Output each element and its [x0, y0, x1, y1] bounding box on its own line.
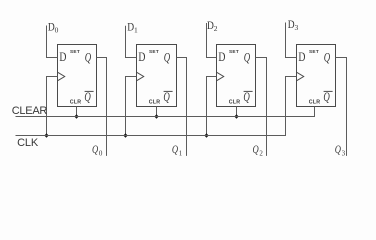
svg-text:Q: Q — [172, 144, 179, 156]
junction on CLK — [44, 133, 48, 137]
node D2 — [207, 20, 218, 33]
svg-text:Q: Q — [335, 144, 342, 156]
svg-text:SET: SET — [70, 49, 80, 54]
wire Q0 output — [97, 58, 107, 156]
svg-text:CLEAR: CLEAR — [12, 105, 48, 117]
svg-text:CLR: CLR — [309, 100, 321, 106]
node D3 — [288, 19, 299, 32]
node Q0 — [92, 144, 103, 157]
svg-text:SET: SET — [149, 49, 159, 54]
svg-text:3: 3 — [342, 149, 346, 157]
svg-text:3: 3 — [295, 23, 299, 32]
junction on CLEAR — [154, 114, 158, 118]
svg-text:Q: Q — [163, 91, 169, 105]
svg-text:Q: Q — [253, 144, 260, 156]
svg-text:SET: SET — [229, 49, 239, 54]
wire CLR stub U2 — [156, 107, 158, 117]
svg-text:D: D — [298, 51, 305, 64]
wire D0 input — [47, 26, 58, 58]
wire D1 input — [126, 26, 137, 58]
svg-text:D: D — [218, 51, 225, 64]
wire CLR stub U1 — [76, 107, 78, 117]
junction on CLK — [123, 133, 127, 137]
wire Q1 output — [177, 58, 187, 156]
svg-text:Q: Q — [324, 51, 330, 65]
node Q3 — [335, 144, 346, 157]
node D1 — [127, 22, 138, 35]
svg-text:1: 1 — [134, 25, 138, 34]
svg-text:D: D — [59, 51, 66, 64]
svg-text:Q: Q — [164, 51, 170, 65]
svg-text:CLR: CLR — [229, 100, 241, 106]
svg-text:0: 0 — [55, 26, 59, 35]
svg-text:1: 1 — [179, 149, 183, 157]
wire D3 input — [286, 23, 297, 58]
svg-text:CLR: CLR — [70, 100, 82, 106]
svg-text:Q: Q — [243, 91, 249, 105]
D flip-flop U1 — [58, 45, 97, 107]
wire CLR stub U3 — [236, 107, 238, 117]
svg-text:CLR: CLR — [149, 100, 161, 106]
wire CLK branch to U2 — [126, 77, 137, 136]
D flip-flop U4 — [297, 45, 336, 107]
junction on CLK — [204, 133, 208, 137]
svg-text:2: 2 — [259, 149, 263, 157]
wire Q2 output — [256, 58, 267, 156]
svg-text:Q: Q — [85, 51, 91, 65]
node D0 — [48, 22, 59, 35]
svg-text:Q: Q — [244, 51, 250, 65]
D flip-flop U3 — [217, 45, 256, 107]
svg-text:Q: Q — [92, 144, 99, 156]
node Q2 — [253, 144, 264, 157]
wire CLK branch to U3 — [207, 77, 217, 136]
D flip-flop U2 — [137, 45, 177, 107]
svg-text:Q: Q — [84, 91, 90, 105]
wire CLEAR bus — [16, 107, 315, 117]
svg-text:CLK: CLK — [17, 137, 39, 149]
junction on CLEAR — [74, 114, 78, 118]
wire CLK bus — [16, 77, 297, 136]
wire CLK branch to U1 — [47, 77, 58, 136]
svg-text:0: 0 — [99, 149, 103, 157]
wire Q3 output — [336, 58, 347, 156]
svg-text:2: 2 — [214, 24, 218, 33]
wire D2 input — [207, 23, 217, 58]
svg-text:D: D — [138, 51, 145, 64]
node Q1 — [172, 144, 183, 157]
svg-text:Q: Q — [323, 91, 329, 105]
svg-text:SET: SET — [309, 49, 319, 54]
junction on CLEAR — [234, 114, 238, 118]
